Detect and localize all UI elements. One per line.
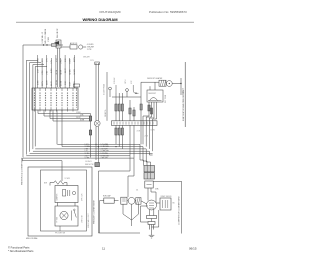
wire defrost feed [141, 82, 159, 144]
wire thermostat lead 1 [56, 48, 58, 87]
ground symbol [149, 234, 155, 236]
svg-text:9 OR WH-13: 9 OR WH-13 [42, 31, 44, 43]
junction bus 3 [106, 144, 107, 145]
svg-text:16 BK-YL: 16 BK-YL [105, 109, 107, 117]
wire bus line 4 [33, 150, 149, 152]
terminal box TB1 [160, 198, 171, 210]
wire lamp lead 2 [97, 63, 99, 121]
connector blob defrost a [140, 104, 142, 110]
wire sensor 2 lead [126, 91, 128, 97]
wire label columns to board [37, 55, 39, 88]
wire bus corner B3 [30, 63, 41, 152]
connector blob R3 upper [121, 104, 123, 111]
svg-text:11 BR: 11 BR [60, 69, 62, 74]
connector box CB1 [144, 166, 155, 172]
junction bus 2 [98, 146, 99, 147]
wire lamp down 1 [95, 126, 97, 160]
thermostat TH1 [56, 40, 61, 48]
fan switch SW1 [71, 211, 73, 221]
wire bus line 2 [62, 146, 143, 148]
wire riser R1 upper [115, 93, 117, 121]
wire thermostat lead 2 [59, 48, 61, 87]
wire comp in [147, 188, 149, 201]
svg-text:* Non-Illustrated Parts: * Non-Illustrated Parts [8, 249, 34, 253]
svg-text:5 YL: 5 YL [51, 60, 53, 64]
relay box K3 [145, 181, 153, 188]
svg-text:FF LIGHT SW: FF LIGHT SW [55, 232, 66, 234]
lamp L1 [94, 121, 100, 127]
wire resistor right [66, 183, 68, 186]
wire cluster tail [131, 220, 133, 226]
wire riser R1 lower [115, 125, 117, 144]
connector blob R2 upper [118, 104, 120, 111]
svg-text:12 VT: 12 VT [65, 68, 67, 73]
control board tab [74, 84, 80, 87]
wire lamp lead 1 [95, 63, 97, 121]
svg-text:1 WH: 1 WH [48, 37, 50, 42]
svg-text:RUN CAP: RUN CAP [103, 195, 111, 198]
damper contents [63, 190, 66, 197]
wire defrost exit 1 [143, 102, 149, 144]
svg-text:13 GN: 13 GN [70, 69, 72, 75]
connector CN5 blob [95, 163, 100, 167]
compressor motor M2 [147, 200, 157, 210]
svg-text:06/15: 06/15 [189, 247, 197, 251]
junction sensor hook [135, 93, 136, 94]
wire cap feed 2 [128, 158, 134, 197]
svg-text:2 BK-WH: 2 BK-WH [101, 158, 109, 160]
wire bus line 6 [26, 155, 130, 157]
wire board drop A [56, 110, 58, 144]
svg-text:EVAPORATOR AND FREEZER FAN: EVAPORATOR AND FREEZER FAN [182, 90, 185, 121]
svg-text:9 OR-BK: 9 OR-BK [114, 77, 116, 84]
run capacitor leads [100, 200, 104, 202]
fresh food inner enclosure [41, 170, 87, 231]
svg-text:DEFROST: DEFROST [149, 93, 157, 95]
wire thermostat box up 2 [154, 82, 156, 90]
fuse F1 [52, 44, 57, 47]
header rule [16, 21, 194, 23]
sensor RC1 [109, 87, 112, 90]
svg-text:10 TN: 10 TN [74, 57, 76, 62]
wire defrost exit 4 [153, 102, 157, 151]
wire lamp down 2 [97, 126, 99, 165]
wire overload link [134, 200, 137, 202]
svg-text:A1 B2 C3: A1 B2 C3 [70, 42, 77, 45]
wire comp from overload [141, 201, 147, 204]
sensor RC2 [126, 89, 129, 92]
svg-text:OL: OL [136, 190, 138, 192]
fan motor M1 [60, 211, 68, 219]
wire buzzer lead [83, 46, 86, 48]
wire resistor left [49, 183, 51, 186]
svg-text:11 BR: 11 BR [47, 80, 49, 85]
wire ptc link [127, 200, 128, 202]
svg-text:10 TN: 10 TN [56, 69, 58, 74]
wire mid riser [106, 72, 108, 121]
fresh food enclosure [28, 167, 92, 236]
wire terminal feed [151, 188, 160, 203]
svg-text:2 LIGHT 60W: 2 LIGHT 60W [104, 84, 106, 95]
wire bus line 3 [35, 148, 146, 150]
svg-text:FREEZER COMPARTMENT: FREEZER COMPARTMENT [92, 199, 95, 224]
wire top branch [61, 46, 70, 48]
svg-text:6 PK 7 OR: 6 PK 7 OR [81, 193, 83, 201]
wire riser R5 [133, 107, 135, 121]
connector blob R1 lower [115, 128, 117, 135]
wire comp riser 4 [149, 151, 152, 155]
buzzer BZ1 [79, 45, 83, 49]
svg-text:1 WH 2 BK: 1 WH 2 BK [81, 214, 83, 223]
wire comp long [153, 181, 181, 233]
wire connector riser [90, 114, 92, 158]
wire board out 3 [50, 110, 91, 119]
connector blob R5 [133, 110, 135, 116]
wire bus corner B5 [35, 67, 47, 147]
wire damper to fan [57, 203, 59, 207]
wire cluster down 3 [132, 204, 139, 220]
wire bus line 5 [30, 153, 153, 155]
wire board out 2 [44, 110, 91, 116]
overload hatch box [136, 198, 141, 205]
wire cap top feed [99, 201, 101, 233]
junction bus 1 [95, 144, 96, 145]
overload OL1 circle [128, 197, 135, 204]
ptc relay K2 [121, 197, 127, 204]
thermostat arrow [54, 41, 59, 45]
svg-text:3 BK-WH: 3 BK-WH [83, 57, 89, 59]
junction J3 [180, 83, 181, 84]
relay K1 [70, 45, 77, 49]
junction bus 4 [115, 146, 116, 147]
resistor R1 [50, 181, 67, 185]
wire defrost exit 3 [149, 102, 154, 149]
wire bus line 7 [23, 157, 134, 159]
svg-text:13 GN: 13 GN [56, 79, 58, 85]
control board bottom pins [34, 108, 36, 112]
wire cap feed [99, 156, 131, 233]
defrost heater HE1 [159, 80, 166, 86]
svg-text:Publication No: 5995598673: Publication No: 5995598673 [149, 10, 187, 14]
connector blob defrost b [148, 105, 150, 111]
wire riser R2 upper [118, 93, 120, 121]
wire sensor stub [115, 85, 117, 93]
svg-text:DEFROST HEATER: DEFROST HEATER [147, 77, 163, 80]
wire board out 1 [38, 110, 91, 114]
defrost bimetal TH2 [150, 98, 158, 101]
svg-text:B/W: B/W [44, 183, 48, 185]
compressor bracket [141, 206, 149, 222]
junction J1 [43, 44, 44, 45]
wire fan box drop [59, 226, 61, 231]
wire defrost exit 2 [146, 102, 151, 147]
control board top pins [34, 88, 36, 91]
svg-text:WIRING DIAGRAM: WIRING DIAGRAM [82, 17, 118, 22]
svg-text:10 TN: 10 TN [42, 81, 44, 86]
wire cluster down 2 [131, 204, 133, 220]
damper box [55, 186, 78, 203]
connector blob R1 upper [115, 104, 117, 111]
wire bus corner B4 [33, 65, 44, 150]
svg-text:14 WH: 14 WH [60, 80, 62, 86]
svg-text:SEE NOTE 2: SEE NOTE 2 [85, 164, 95, 166]
wire cluster down 1 [123, 204, 132, 220]
control board U1 [32, 88, 78, 110]
run capacitor C1 [104, 198, 114, 203]
control board pin label columns [34, 93, 36, 108]
svg-text:2 BK: 2 BK [45, 28, 47, 33]
wire board out 4 [53, 110, 91, 121]
wire board drop B [61, 110, 63, 147]
wire sensor 1 lead [109, 90, 111, 97]
svg-text:14 WH: 14 WH [74, 69, 76, 75]
svg-text:17 B/W: 17 B/W [65, 178, 71, 180]
power plug PL1 [147, 216, 157, 219]
wire bus line 8 [23, 158, 63, 181]
connector blob R4 [129, 108, 131, 114]
svg-text:11: 11 [102, 247, 105, 251]
wire bus corner B2 [26, 61, 38, 155]
wire sensor bus [112, 96, 141, 98]
svg-text:9 OR: 9 OR [57, 28, 59, 33]
wire thermostat box up 1 [149, 86, 151, 90]
svg-text:© Functional Parts: © Functional Parts [8, 246, 30, 250]
connector blob R3 lower [121, 128, 123, 135]
wire heater out [172, 83, 181, 85]
wire left bus drop [22, 45, 24, 158]
connector bar CN4 [112, 121, 158, 126]
connector CN3 [95, 62, 100, 65]
svg-text:FPHT1912QM0: FPHT1912QM0 [99, 10, 120, 14]
fan box [55, 206, 78, 226]
wire right stub [180, 78, 182, 95]
defrost thermostat box [147, 90, 163, 102]
svg-text:15 YL: 15 YL [90, 60, 94, 62]
wire comp riser 3 [146, 149, 150, 166]
connector blob R2 lower [118, 128, 120, 135]
wire sensor hook [133, 85, 138, 93]
svg-text:DEF TERM: DEF TERM [165, 94, 167, 103]
connector box CB2 [144, 173, 155, 179]
connector blob defrost c [150, 108, 152, 114]
wire riser R4 [129, 100, 131, 121]
junction J2 [46, 44, 47, 45]
wire bottom rail [99, 232, 141, 234]
defrost heater circle E1 [166, 81, 172, 87]
wire comp riser 2 [143, 147, 147, 166]
wire riser R3 upper [121, 93, 123, 121]
wire terminal down [152, 210, 159, 227]
svg-text:11 TN: 11 TN [87, 49, 92, 51]
wire bus line 1 [57, 143, 140, 145]
svg-text:COMPRESSOR COMPARTMENT: COMPRESSOR COMPARTMENT [178, 195, 181, 225]
wire top supply [23, 44, 63, 46]
evaporator border [184, 62, 186, 127]
connector CN2 blobs [89, 116, 91, 121]
svg-text:16 GN-YL: 16 GN-YL [85, 161, 92, 163]
wire riser R3 lower [121, 125, 123, 148]
wire comp riser 1 [140, 144, 144, 165]
svg-text:12 VT: 12 VT [51, 81, 53, 86]
wire riser R2 lower [118, 125, 120, 146]
wire comp down [149, 210, 151, 216]
svg-text:MULLION RAIL: MULLION RAIL [26, 237, 38, 240]
svg-text:17 BR: 17 BR [85, 158, 90, 160]
